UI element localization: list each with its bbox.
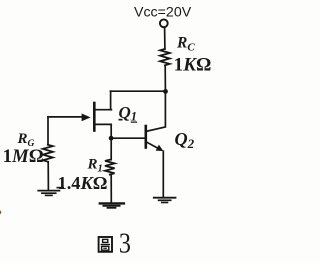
svg-text:1.4KΩ: 1.4KΩ bbox=[58, 173, 108, 193]
wire Vcc to Rc bbox=[164, 28, 166, 49]
transistor Q2 emitter arrow bbox=[156, 145, 164, 152]
transistor Q1 gate arrow bbox=[82, 114, 91, 122]
svg-text:Vcc=20V: Vcc=20V bbox=[134, 4, 192, 20]
resistor RC bbox=[160, 49, 170, 65]
ground left bbox=[38, 190, 59, 192]
transistor Q2 emitter bbox=[147, 142, 159, 149]
wire Q1 source vertical bbox=[110, 124, 112, 159]
transistor Q1 drain stub bbox=[95, 109, 112, 111]
resistor RG bbox=[43, 145, 53, 162]
svg-text:3: 3 bbox=[119, 227, 131, 259]
node Vcc terminal bbox=[160, 19, 168, 27]
wire R1 to ground bbox=[110, 175, 112, 203]
transistor Q2 collector bbox=[147, 91, 166, 131]
transistor Q2 base bar bbox=[145, 126, 148, 148]
transistor Q1 source stub bbox=[95, 123, 112, 125]
wire gate riser bbox=[47, 117, 49, 145]
caption figure number 3 bbox=[119, 227, 131, 259]
stray mark before 1.4K bbox=[57, 187, 65, 189]
wire Q2 emitter to ground bbox=[162, 151, 164, 197]
svg-text:1MΩ: 1MΩ bbox=[3, 146, 44, 167]
svg-text:1KΩ: 1KΩ bbox=[174, 54, 212, 75]
node junction top bbox=[163, 89, 168, 94]
caption figure glyph 圖 bbox=[99, 237, 112, 252]
ground middle bbox=[100, 202, 124, 204]
transistor Q1 channel bar bbox=[93, 103, 96, 131]
node junction source/base bbox=[109, 136, 114, 141]
ground right bbox=[154, 197, 176, 199]
red speck left edge bbox=[0, 210, 2, 215]
wire Q1 drain vertical bbox=[110, 91, 112, 110]
wire gate horizontal bbox=[48, 116, 83, 118]
wire base bbox=[111, 137, 145, 139]
resistor R1 bbox=[105, 160, 115, 175]
wire RG to ground bbox=[47, 162, 49, 191]
wire top horizontal bbox=[111, 90, 166, 92]
wire Rc to top node bbox=[164, 65, 166, 91]
